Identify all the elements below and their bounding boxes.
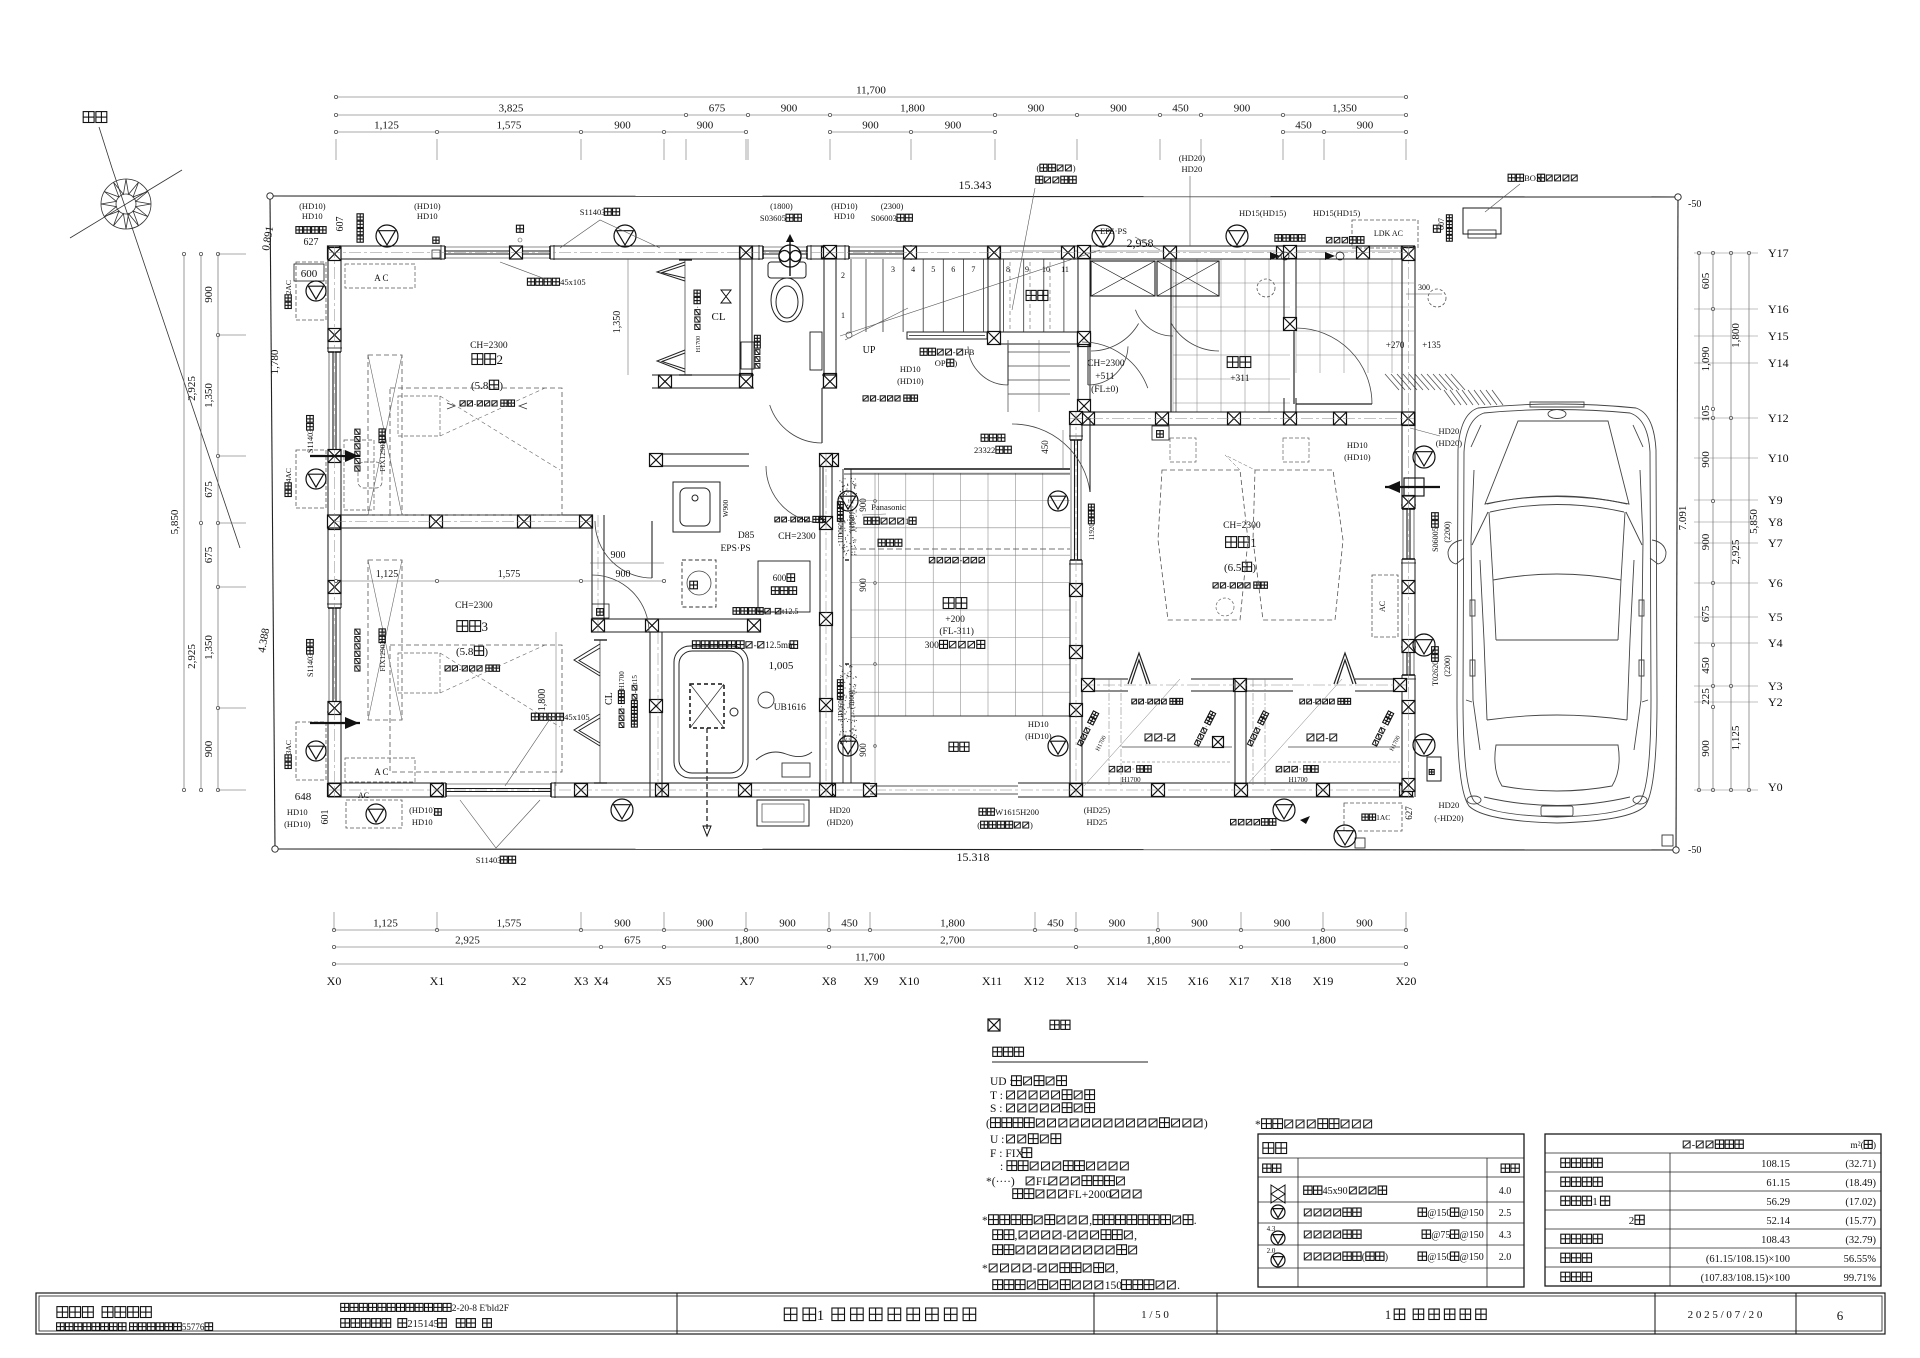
svg-text:(5.8: (5.8 — [471, 380, 489, 392]
svg-text:A C: A C — [374, 767, 388, 777]
svg-text:H1700: H1700 — [1289, 776, 1309, 784]
bottom dim row 2 — [334, 946, 1406, 948]
svg-text:450: 450 — [1047, 918, 1064, 930]
room nakaniwa labels — [943, 598, 954, 609]
svg-text:2-20-8 E'bld2F: 2-20-8 E'bld2F — [452, 1304, 509, 1314]
svg-text:4.0: 4.0 — [1499, 1186, 1512, 1197]
gravel strip dots lower — [839, 664, 857, 743]
room monoire label — [1026, 290, 1036, 300]
vent symbols top wall — [376, 225, 398, 247]
door arc washroom entry — [766, 466, 823, 523]
svg-text:45x105: 45x105 — [564, 712, 590, 722]
svg-text:Y8: Y8 — [1768, 515, 1783, 529]
svg-text:2AC: 2AC — [284, 280, 293, 294]
svg-text:607: 607 — [1437, 218, 1446, 230]
svg-text:+311: +311 — [1230, 374, 1250, 384]
vent symbols bottom wall — [611, 799, 633, 821]
svg-text:900: 900 — [1028, 103, 1045, 115]
svg-text:1,125: 1,125 — [376, 569, 399, 580]
svg-text:S03605: S03605 — [760, 213, 786, 223]
closet shelf lines — [1122, 746, 1232, 748]
entrance door arc — [1296, 328, 1372, 404]
bed2 yoshitsu1 — [1283, 438, 1309, 462]
svg-text:FL: FL — [1036, 1176, 1049, 1188]
svg-text:7.091: 7.091 — [1677, 506, 1689, 531]
bed yoshitsu2 — [390, 388, 562, 515]
washbasin — [673, 482, 720, 532]
stair diagonal — [840, 250, 1100, 336]
water heater outside — [757, 800, 809, 826]
drain arrows top — [1270, 252, 1280, 260]
svg-text:11,700: 11,700 — [856, 85, 886, 97]
svg-text:Y2: Y2 — [1768, 695, 1783, 709]
svg-text:675: 675 — [624, 935, 641, 947]
svg-text:1,800: 1,800 — [900, 103, 925, 115]
svg-text:450: 450 — [1040, 440, 1050, 454]
AC dashed box in yoshitsu2 — [345, 264, 415, 288]
vent symbols right wall — [1413, 446, 1435, 468]
svg-text:(107.83/108.15)×100: (107.83/108.15)×100 — [1701, 1273, 1790, 1284]
bath dashed drain line — [706, 728, 708, 832]
bed1 yoshitsu1 — [1170, 438, 1196, 462]
svg-text:@150: @150 — [1427, 1252, 1451, 1263]
svg-text:450: 450 — [1172, 103, 1189, 115]
svg-text:450: 450 — [1295, 120, 1312, 132]
svg-text:HD20: HD20 — [1182, 164, 1203, 174]
svg-text:675: 675 — [203, 546, 215, 563]
svg-text:X0: X0 — [327, 974, 342, 988]
svg-text:(HD25): (HD25) — [1084, 805, 1111, 815]
compass cross lines — [70, 170, 182, 238]
svg-text:55776: 55776 — [182, 1322, 205, 1332]
svg-text:-50: -50 — [1688, 199, 1701, 210]
legend header — [1263, 1143, 1274, 1154]
svg-text:(HD10): (HD10) — [1344, 452, 1371, 462]
svg-text:900: 900 — [858, 743, 868, 757]
svg-text:EPS·PS: EPS·PS — [721, 544, 751, 554]
boundary stone 2 — [1662, 835, 1673, 846]
courtyard left window band — [842, 469, 844, 783]
svg-text:Y0: Y0 — [1768, 780, 1783, 794]
svg-text:8: 8 — [1006, 265, 1010, 274]
exterior wall bottom — [328, 782, 446, 784]
title block frame — [36, 1293, 1885, 1334]
svg-text:900: 900 — [614, 120, 631, 132]
svg-text:300: 300 — [925, 641, 940, 651]
svg-text:·: · — [1132, 765, 1135, 774]
svg-text:X10: X10 — [899, 974, 920, 988]
stair handrail — [907, 332, 987, 339]
svg-text:UP: UP — [863, 345, 876, 356]
closet top walls — [1082, 678, 1128, 680]
svg-text:+270: +270 — [1386, 340, 1405, 350]
svg-text:t15: t15 — [631, 675, 639, 684]
svg-text:300: 300 — [1418, 283, 1430, 292]
svg-text:10: 10 — [1042, 265, 1050, 274]
closet A-door 1 — [1128, 653, 1150, 684]
svg-text:X9: X9 — [864, 974, 879, 988]
svg-text:2: 2 — [841, 271, 845, 280]
svg-text:1,575: 1,575 — [497, 918, 522, 930]
svg-text:(32.71): (32.71) — [1845, 1159, 1876, 1170]
svg-text:.: . — [1194, 1215, 1197, 1227]
svg-text:): ) — [499, 380, 503, 392]
svg-text:X5: X5 — [657, 974, 672, 988]
svg-text:S11403: S11403 — [476, 855, 502, 865]
closet partition 1 — [1234, 679, 1236, 786]
svg-text:627: 627 — [304, 237, 319, 248]
svg-text:FIX12903: FIX12903 — [378, 641, 387, 672]
svg-text:CL: CL — [712, 311, 726, 323]
entrance tile grid — [1173, 259, 1290, 412]
bathtub — [674, 646, 748, 778]
svg-text:(HD10): (HD10) — [284, 819, 311, 829]
gravel strip dots upper — [839, 478, 857, 558]
svg-text:(HD20): (HD20) — [1179, 153, 1206, 163]
svg-text:(17.02): (17.02) — [1845, 1197, 1876, 1208]
svg-text:900: 900 — [862, 120, 879, 132]
svg-text:11: 11 — [1061, 265, 1069, 274]
svg-text:99.71%: 99.71% — [1844, 1273, 1877, 1284]
svg-text:627: 627 — [1404, 806, 1414, 820]
toplight yoshitsu3 — [368, 560, 402, 720]
svg-text:1,005: 1,005 — [769, 660, 794, 672]
downspout dashed circle 2 — [1428, 289, 1446, 307]
svg-text:3,825: 3,825 — [499, 103, 524, 115]
chair yoshitsu2 — [358, 462, 382, 488]
svg-text:UD :: UD : — [990, 1076, 1013, 1088]
door arc corridor-washroom — [595, 521, 652, 578]
svg-text:@150: @150 — [1427, 1208, 1451, 1219]
desk yoshitsu2 — [344, 440, 374, 510]
svg-text:S11403: S11403 — [580, 207, 606, 217]
svg-text:1,800: 1,800 — [1146, 935, 1171, 947]
svg-text:Y12: Y12 — [1768, 411, 1789, 425]
svg-text:900: 900 — [611, 550, 626, 561]
svg-text:1,125: 1,125 — [374, 120, 399, 132]
bottom dim row 3 — [334, 963, 1406, 965]
kanbashira legend — [988, 1019, 1000, 1031]
kemuri boxes — [592, 604, 609, 618]
svg-text:1,800: 1,800 — [1311, 935, 1336, 947]
svg-text:CH=2300: CH=2300 — [470, 341, 508, 351]
top dim extension ticks — [335, 139, 337, 160]
svg-text:(: ( — [977, 820, 980, 830]
svg-text:900: 900 — [1356, 918, 1373, 930]
bottom dim row 1 — [334, 929, 1406, 931]
AC LDK top — [1352, 220, 1418, 248]
svg-text:(HD10): (HD10) — [1025, 731, 1052, 741]
svg-text:900: 900 — [1700, 451, 1712, 468]
svg-text:108.15: 108.15 — [1761, 1159, 1790, 1170]
svg-text:1,800: 1,800 — [537, 689, 548, 712]
svg-text:·: · — [1299, 765, 1302, 774]
svg-text:W1615H200: W1615H200 — [995, 807, 1039, 817]
right dim total 5,850 — [1748, 253, 1750, 790]
toilet — [768, 262, 806, 322]
svg-text:X19: X19 — [1313, 974, 1334, 988]
svg-text:Y17: Y17 — [1768, 246, 1789, 260]
yoshitsu3 door arc — [592, 575, 649, 632]
svg-text:(6.5: (6.5 — [1224, 562, 1242, 574]
svg-text:900: 900 — [858, 498, 868, 512]
svg-text:): ) — [1873, 1140, 1876, 1151]
svg-text:1,800: 1,800 — [940, 918, 965, 930]
svg-text:900: 900 — [858, 578, 868, 592]
svg-text:X7: X7 — [740, 974, 755, 988]
svg-text:2: 2 — [1629, 1215, 1635, 1227]
svg-text:45x105: 45x105 — [560, 277, 586, 287]
svg-text:CH=2300: CH=2300 — [778, 532, 816, 542]
svg-text:HD10: HD10 — [834, 211, 855, 221]
svg-text:Y7: Y7 — [1768, 536, 1783, 550]
svg-text:X3: X3 — [574, 974, 589, 988]
wall yoshitsu1 left — [1069, 412, 1071, 440]
washing machine — [682, 560, 716, 607]
svg-text:FL+2000: FL+2000 — [1068, 1189, 1111, 1201]
title address — [341, 1303, 349, 1311]
door arc storage left — [968, 346, 1008, 385]
svg-text:675: 675 — [709, 103, 726, 115]
svg-text:X20: X20 — [1396, 974, 1417, 988]
sansuisen box — [1427, 757, 1441, 781]
svg-text:,: , — [1089, 1215, 1092, 1227]
svg-text:X2: X2 — [512, 974, 527, 988]
yoshitsu3 CL bifold leaves — [574, 644, 600, 746]
svg-text:(32.79): (32.79) — [1845, 1235, 1876, 1246]
svg-text:108.43: 108.43 — [1761, 1235, 1790, 1246]
legend row1 wood brace — [1271, 1185, 1285, 1203]
downspout dashed circle 1 — [1257, 279, 1275, 297]
compass rosette — [101, 179, 151, 229]
svg-text:Y14: Y14 — [1768, 356, 1789, 370]
top dim total 11,700 — [336, 96, 1406, 98]
svg-text:1,575: 1,575 — [498, 569, 521, 580]
svg-text:1: 1 — [841, 311, 845, 320]
svg-text:+135: +135 — [1422, 340, 1441, 350]
svg-text:W900: W900 — [722, 499, 730, 517]
svg-text:X4: X4 — [594, 974, 609, 988]
courtyard tile grid — [851, 473, 1070, 716]
svg-text:U :: U : — [990, 1134, 1004, 1146]
svg-text:5,850: 5,850 — [1748, 509, 1760, 534]
svg-text:X18: X18 — [1271, 974, 1292, 988]
room genkan labels — [1227, 357, 1238, 368]
AC in yoshitsu1 dashed — [1372, 575, 1398, 637]
left dim total 5,850 — [183, 254, 185, 790]
svg-text:1AC: 1AC — [1376, 813, 1390, 822]
svg-text:900: 900 — [781, 103, 798, 115]
svg-text:Y16: Y16 — [1768, 302, 1789, 316]
legend row2 — [1271, 1205, 1285, 1219]
CL bifold leaves bottom — [657, 350, 685, 372]
svg-text:2,925: 2,925 — [186, 644, 198, 669]
bath labels — [692, 641, 700, 649]
wall bath left — [649, 632, 651, 797]
svg-text:(15.77): (15.77) — [1845, 1216, 1876, 1227]
svg-text:(61.15/108.15)×100: (61.15/108.15)×100 — [1706, 1254, 1790, 1265]
wall washroom right — [819, 454, 821, 797]
svg-text:1,780: 1,780 — [269, 349, 281, 374]
svg-text:-: - — [960, 556, 963, 565]
wall entrance right stub — [1283, 398, 1285, 425]
svg-text:HD15(HD15): HD15(HD15) — [1239, 208, 1286, 218]
svg-text:-50: -50 — [1688, 845, 1701, 856]
svg-text:(2300): (2300) — [881, 201, 904, 211]
svg-text:900: 900 — [1357, 120, 1374, 132]
svg-text:HD10: HD10 — [287, 807, 308, 817]
car — [1448, 402, 1666, 823]
wall genkan-yoshitsu1 — [1082, 411, 1414, 413]
svg-text:S :: S : — [990, 1103, 1002, 1115]
svg-text:-: - — [1033, 1263, 1037, 1275]
svg-text:1,350: 1,350 — [1332, 103, 1357, 115]
AC dashed box in yoshitsu3 — [345, 758, 415, 782]
svg-text:CL: CL — [604, 692, 615, 705]
svg-text:900: 900 — [203, 286, 215, 303]
svg-text:(-HD20): (-HD20) — [1434, 813, 1463, 823]
svg-text:(1800): (1800) — [848, 690, 856, 709]
svg-text:X14: X14 — [1107, 974, 1128, 988]
porch hatch strip — [1385, 374, 1465, 390]
svg-text:1,800: 1,800 — [1730, 323, 1742, 348]
title project name — [784, 1308, 797, 1321]
svg-text:(HD10): (HD10) — [897, 376, 924, 386]
svg-text:·: · — [693, 306, 702, 309]
svg-text:5: 5 — [931, 265, 935, 274]
svg-text:61.15: 61.15 — [1766, 1178, 1790, 1189]
svg-text:900: 900 — [203, 740, 215, 757]
svg-text:F : FIX: F : FIX — [990, 1148, 1025, 1160]
courtyard top edge — [844, 468, 1070, 470]
toilet storage — [810, 332, 822, 370]
svg-text:H1700: H1700 — [696, 336, 702, 352]
svg-text:450: 450 — [1700, 657, 1712, 674]
entrance steps — [1008, 351, 1070, 353]
title company — [57, 1307, 68, 1318]
svg-text:56.55%: 56.55% — [1844, 1254, 1877, 1265]
svg-text:2,958: 2,958 — [1127, 236, 1154, 250]
svg-text:-: - — [1325, 733, 1328, 744]
svg-text:X17: X17 — [1229, 974, 1250, 988]
svg-text:CH=2300: CH=2300 — [1223, 521, 1261, 531]
svg-text:105: 105 — [1700, 405, 1712, 422]
svg-text:6: 6 — [1837, 1308, 1844, 1323]
svg-text:T02620: T02620 — [1431, 661, 1440, 686]
svg-text:FIX12903: FIX12903 — [378, 441, 387, 472]
svg-text:*: * — [1255, 1119, 1261, 1131]
svg-text:@150: @150 — [1460, 1230, 1484, 1241]
svg-text:Y5: Y5 — [1768, 610, 1783, 624]
svg-text:Y3: Y3 — [1768, 679, 1783, 693]
svg-text:@150: @150 — [1460, 1252, 1484, 1263]
left dim extension ticks — [218, 253, 246, 255]
wall CL-toilet — [739, 246, 741, 388]
svg-text:-: - — [1063, 1230, 1067, 1242]
svg-text:900: 900 — [945, 120, 962, 132]
closet A-door 2 — [1334, 653, 1356, 684]
north arrow line — [99, 127, 112, 168]
right dim col mid — [1730, 253, 1732, 790]
svg-text:-: - — [1692, 1140, 1695, 1151]
svg-text:H1700: H1700 — [618, 671, 626, 691]
legend table frame — [1258, 1134, 1524, 1287]
bed yoshitsu3 — [390, 645, 562, 772]
bottom dim extension ticks — [333, 912, 335, 930]
svg-text:1,125: 1,125 — [373, 918, 398, 930]
svg-text:HD20: HD20 — [1439, 800, 1460, 810]
svg-text:9: 9 — [1025, 265, 1029, 274]
AC yoshitsu1 — [1344, 803, 1402, 831]
yoshitsu3 CL edge — [599, 640, 601, 783]
svg-text:HD10: HD10 — [1347, 440, 1368, 450]
svg-text::: : — [1000, 1161, 1003, 1173]
svg-text:): ) — [1030, 820, 1033, 830]
svg-text:2,925: 2,925 — [455, 935, 480, 947]
svg-text:Panasonic: Panasonic — [871, 502, 906, 512]
true-north label — [83, 112, 94, 123]
courtyard tile end line — [851, 715, 1070, 717]
bath stool and counter — [756, 692, 812, 777]
area table rows — [1683, 1141, 1690, 1148]
top dim row B — [336, 114, 1406, 116]
svg-text:X8: X8 — [822, 974, 837, 988]
svg-text:52.14: 52.14 — [1766, 1216, 1790, 1227]
svg-text:4: 4 — [911, 265, 915, 274]
svg-text:HD10: HD10 — [302, 211, 323, 221]
svg-text:(HD10): (HD10) — [299, 201, 326, 211]
svg-text:648: 648 — [295, 791, 312, 803]
svg-text:HD15(HD15): HD15(HD15) — [1313, 208, 1360, 218]
bed center mark — [1216, 598, 1234, 616]
exterior wall left — [327, 246, 329, 352]
svg-text:900: 900 — [1700, 740, 1712, 757]
svg-text:,: , — [1015, 1230, 1018, 1242]
svg-text:·: · — [618, 705, 626, 707]
svg-text:*: * — [982, 1215, 988, 1227]
svg-text:5,850: 5,850 — [169, 509, 181, 534]
svg-text:(5.8: (5.8 — [456, 646, 474, 658]
svg-text:2: 2 — [497, 352, 504, 367]
svg-text:900: 900 — [1274, 918, 1291, 930]
svg-text:UD0609: UD0609 — [837, 696, 845, 721]
wall toilet-stairhall — [823, 246, 825, 388]
svg-text:56.29: 56.29 — [1766, 1197, 1790, 1208]
svg-text:): ) — [1073, 163, 1076, 173]
closet mid post — [1213, 737, 1224, 748]
site boundary — [270, 196, 1678, 197]
courtyard internal dim line — [874, 473, 876, 786]
svg-text:1: 1 — [1592, 1196, 1598, 1208]
svg-text:+511: +511 — [1095, 372, 1115, 382]
svg-text:S11403: S11403 — [306, 429, 315, 453]
svg-text:1,350: 1,350 — [203, 383, 215, 408]
AC bottom (yoshitsu4) — [346, 800, 402, 828]
CL left edge line — [684, 260, 686, 375]
inspection hatch 600 — [758, 561, 810, 612]
closet dashdot lines — [1108, 679, 1110, 786]
svg-text:2,925: 2,925 — [186, 376, 198, 401]
svg-text:@75: @75 — [1431, 1230, 1450, 1241]
CL tasuki post — [721, 290, 731, 303]
AC yoshitsu2 — [296, 262, 326, 320]
toilet cabinet — [741, 342, 754, 369]
svg-text:): ) — [1204, 1118, 1208, 1130]
toplight yoshitsu2 — [368, 355, 402, 515]
svg-text:1,125: 1,125 — [1730, 725, 1742, 750]
svg-text:(HD20): (HD20) — [827, 817, 854, 827]
svg-text:3: 3 — [891, 265, 895, 274]
